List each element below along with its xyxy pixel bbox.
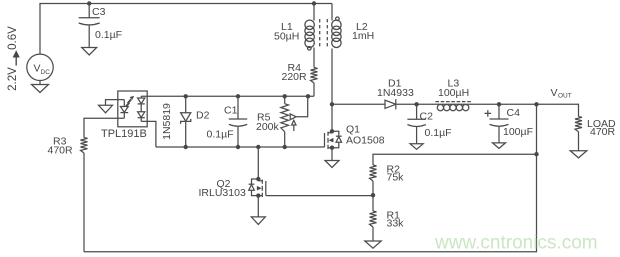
node gate rail / R5 — [283, 94, 287, 98]
capacitor C1 — [229, 118, 247, 120]
node Vout feedback junction — [534, 102, 538, 106]
resistor R5 — [281, 104, 289, 132]
node Q1 source — [330, 146, 334, 150]
transistor Q2 IRLU3103 — [249, 179, 266, 197]
svg-text:470R: 470R — [590, 126, 616, 138]
svg-text:C3: C3 — [92, 6, 106, 18]
svg-text:0.1µF: 0.1µF — [207, 129, 234, 141]
wire C4 bottom — [498, 126, 500, 142]
wire Q1 drain to D1 — [332, 103, 385, 105]
adjust arrow of R5 — [292, 120, 296, 131]
svg-text:75k: 75k — [387, 172, 405, 184]
wire C2 bottom — [416, 127, 418, 144]
node R2 R1 junction — [371, 193, 375, 197]
ground below R1 — [365, 241, 381, 248]
resistor R3 — [81, 138, 88, 154]
wire C1 top — [237, 96, 239, 119]
label VOUT — [551, 87, 572, 100]
resistor LOAD — [575, 117, 582, 132]
node top-rail / L1 junction — [312, 1, 316, 5]
node top-rail / C3 junction — [87, 1, 91, 5]
svg-text:IRLU3103: IRLU3103 — [199, 187, 246, 199]
svg-text:1N4933: 1N4933 — [377, 87, 414, 99]
wire Q2 drain — [257, 147, 259, 179]
wire TPL ground to LED — [106, 100, 125, 106]
ground below C4 — [493, 143, 506, 149]
polarity dot L2 — [336, 17, 340, 21]
svg-text:0.6V: 0.6V — [7, 26, 19, 50]
wire R2 to R1 — [372, 181, 374, 211]
label 2.2V to 0.6V — [7, 26, 20, 91]
svg-text:2.2V: 2.2V — [7, 67, 19, 91]
wire L2 top — [331, 4, 333, 21]
node feedback tap — [534, 152, 538, 156]
node bottom rail / Q2 — [256, 145, 260, 149]
wire TPL output down — [141, 121, 156, 147]
diode D2 1N5819 — [181, 96, 191, 147]
wire L1 top — [313, 4, 315, 21]
LED inside TPL191B — [120, 100, 128, 119]
transformer core — [320, 19, 328, 49]
svg-text:C2: C2 — [420, 111, 434, 123]
wire LOAD bottom — [578, 132, 580, 151]
svg-text:1N5819: 1N5819 — [161, 103, 173, 140]
resistor R4 — [311, 68, 318, 84]
ground below C3 — [82, 48, 97, 56]
wire bottom rail — [156, 146, 325, 148]
wire Q2 to ground — [257, 196, 259, 217]
ground below LOAD — [570, 151, 587, 158]
svg-text:100µH: 100µH — [438, 87, 469, 99]
wire L2 to Q1 — [331, 49, 333, 132]
svg-text:OUT: OUT — [558, 93, 572, 100]
photodiode pair in TPL191B — [138, 96, 145, 121]
capacitor C4 — [490, 118, 509, 120]
svg-text:D2: D2 — [196, 110, 210, 122]
svg-text:V: V — [551, 87, 558, 99]
wire R4 bottom — [313, 83, 315, 96]
resistor R2 — [370, 165, 377, 181]
svg-text:www.cntronics.com: www.cntronics.com — [434, 233, 598, 254]
wire gate rail — [141, 95, 314, 97]
svg-text:33k: 33k — [387, 217, 405, 229]
ground below C2 — [410, 144, 423, 150]
svg-text:50µH: 50µH — [274, 31, 299, 43]
node D1 branch — [330, 102, 334, 106]
wire C3 top — [88, 4, 90, 18]
plus sign of C4 — [485, 110, 492, 117]
diode D1 1N4933 — [385, 99, 396, 109]
wire Q2 gate — [266, 195, 373, 197]
svg-text:0.1µF: 0.1µF — [95, 29, 122, 41]
ground below VDC — [32, 85, 49, 93]
svg-text:100µF: 100µF — [503, 126, 533, 138]
opto-isolator U1 TPL191B box — [118, 91, 147, 127]
ground below Q1 — [325, 161, 339, 168]
wire feedback vertical — [84, 104, 537, 251]
capacitor C3 — [79, 17, 100, 19]
inductor L1 — [305, 20, 314, 47]
inductor L2 — [332, 20, 341, 47]
wire R3 bottom — [83, 153, 85, 252]
wire L1 to R4 — [313, 48, 315, 68]
wire R5 bottom — [284, 132, 286, 147]
svg-text:0.1µF: 0.1µF — [425, 127, 452, 139]
wire TPL LED to R3 — [84, 118, 124, 137]
svg-text:1mH: 1mH — [352, 30, 374, 42]
svg-text:470R: 470R — [48, 145, 74, 157]
wire R5 top — [284, 96, 286, 103]
wire VDC bottom — [39, 81, 41, 86]
node Q1 drain — [330, 129, 334, 133]
node C4 junction — [497, 102, 501, 106]
inductor L3 — [435, 102, 471, 111]
wire D1 to Vout — [396, 104, 579, 116]
svg-text:C1: C1 — [224, 105, 238, 117]
node gate rail / C1 — [236, 94, 240, 98]
ground at TPL191B — [99, 105, 113, 113]
node bottom rail / R5 — [283, 145, 287, 149]
node gate rail / D2 — [184, 94, 188, 98]
polarity dot L1 — [308, 47, 312, 51]
svg-text:200k: 200k — [256, 121, 280, 133]
svg-text:V: V — [34, 63, 41, 75]
svg-text:220R: 220R — [282, 71, 308, 83]
wiper of R5 — [290, 96, 308, 119]
wire Q1 to ground — [331, 148, 333, 161]
node Q2 drain — [256, 177, 260, 181]
node C2 junction — [414, 102, 418, 106]
wire C3 bottom — [88, 25, 90, 48]
svg-text:DC: DC — [41, 69, 51, 76]
svg-text:TPL191B: TPL191B — [101, 128, 147, 140]
capacitor C2 — [407, 118, 426, 120]
wire top rail — [40, 4, 332, 55]
wire C2 top — [416, 104, 418, 119]
voltage source VDC — [27, 54, 53, 80]
wire C1 bottom — [237, 126, 239, 147]
node gate rail / wiper — [306, 94, 310, 98]
node Q2 source — [256, 193, 260, 197]
wire C4 top — [498, 104, 500, 119]
wire R1 bottom — [372, 227, 374, 241]
wire feedback to R2 — [373, 154, 537, 165]
light arrow in TPL191B — [126, 96, 134, 107]
ground below Q2 — [251, 217, 265, 225]
svg-text:C4: C4 — [507, 107, 521, 119]
node bottom rail / D2 — [184, 145, 188, 149]
transistor Q1 AO1508 — [325, 131, 342, 149]
node bottom rail / C1 — [236, 145, 240, 149]
resistor R1 — [370, 211, 377, 227]
svg-text:AO1508: AO1508 — [346, 135, 385, 147]
